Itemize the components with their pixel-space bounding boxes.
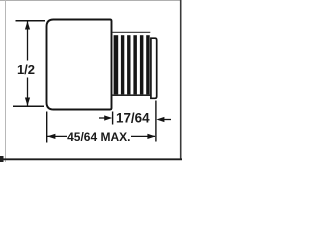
dim 17/64 right outside arrowhead: [156, 117, 164, 122]
svg-text:1/2: 1/2: [17, 62, 35, 77]
dim 1/2 top extension line: [16, 20, 46, 22]
dim 45/64 right extension line: [155, 101, 157, 142]
table border right: [180, 0, 182, 160]
dim 45/64 left extension line: [46, 112, 48, 143]
knurl top edge: [113, 31, 151, 33]
dim 1/2 line lower segment: [27, 78, 29, 106]
dim 45/64 arrow right: [147, 134, 155, 139]
dim 1/2 arrow up: [25, 21, 30, 29]
knurl ridge 2: [121, 35, 124, 94]
table border top: [0, 0, 181, 2]
dim 17/64 right outside arrow tail: [162, 119, 171, 121]
body outline: [47, 20, 112, 110]
knurl ridge 4: [133, 35, 137, 94]
knurl ridge 3: [127, 35, 130, 94]
table border bottom: [0, 158, 182, 160]
dim 17/64 left outside arrow tail: [99, 117, 107, 119]
dim 1/2 bottom extension line: [13, 105, 44, 107]
knurl ridge 6: [146, 35, 150, 94]
dim 45/64 line left segment: [47, 135, 67, 137]
svg-text:45/64 MAX.: 45/64 MAX.: [67, 130, 130, 144]
table border corner mark: [0, 156, 4, 162]
dim 1/2 arrow down: [25, 98, 30, 106]
dim 1/2 line upper segment: [27, 22, 29, 61]
knurl ridge 1: [114, 35, 119, 94]
table border left: [5, 0, 7, 162]
dim 45/64 arrow left: [47, 134, 55, 139]
dim 17/64 left extension line: [112, 112, 114, 125]
knurl ridge 5: [140, 35, 144, 94]
shaft tip: [151, 38, 157, 98]
dim 17/64 left outside arrowhead: [104, 115, 112, 120]
dim 45/64 line right segment: [131, 135, 155, 137]
svg-text:17/64: 17/64: [116, 111, 150, 126]
knurl bottom edge: [113, 94, 151, 96]
